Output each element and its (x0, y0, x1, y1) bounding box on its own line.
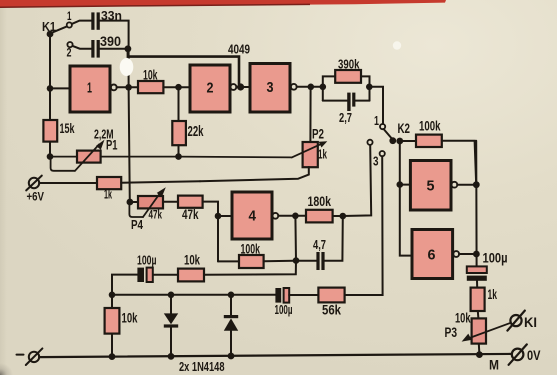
wire U3 out (297, 86, 308, 88)
wire contact1 to C 33n (72, 21, 92, 24)
resistor 47k (178, 196, 203, 208)
switch K1 contact 1 (67, 22, 72, 27)
svg-text:P1: P1 (106, 138, 118, 153)
whiteout dot (393, 41, 401, 49)
wire K2 pole down to U5 input (399, 141, 401, 185)
inverter U6 (412, 230, 453, 279)
wire node A to 180k (295, 215, 306, 217)
wire contact 3 down to 56k (345, 156, 383, 295)
resistor 1k (output) (471, 288, 485, 311)
inverter U6 output bubble (453, 251, 459, 257)
wire 100k to right column (442, 141, 476, 185)
node rail D2 (228, 353, 235, 360)
svg-text:33n: 33n (101, 8, 122, 23)
capacitor 390 (91, 40, 99, 58)
svg-text:P3: P3 (445, 325, 458, 340)
resistor 1k (+6V) (97, 177, 121, 189)
wire 15k to P1 node (49, 142, 51, 157)
wire RC bottom branch right (355, 100, 369, 102)
node at caps junction (125, 45, 132, 52)
wire to gate1 (50, 87, 70, 89)
wire C33n to corner down to node (100, 21, 129, 47)
terminal +6V (26, 176, 42, 191)
svg-text:+6V: +6V (27, 190, 45, 204)
resistor 100k feedback (239, 255, 264, 268)
node bus D2 (228, 292, 235, 299)
wire +6V to 1k (39, 182, 97, 184)
wire R10k to U2 (163, 86, 190, 88)
node U5 input (397, 181, 404, 188)
inverter U3 output bubble (291, 84, 297, 90)
wire bus left column up to cap row (112, 275, 137, 295)
wire C4,7 to node B column (325, 216, 343, 261)
wire 10k row to node A2 (204, 261, 296, 275)
svg-text:2: 2 (67, 46, 72, 60)
svg-text:1k: 1k (318, 147, 327, 162)
resistor 100k (K2) (416, 135, 442, 147)
P1 wiper arrow (75, 140, 105, 171)
red magazine bar top (0, 0, 446, 7)
wire K1 pole down to gate1 input (49, 35, 51, 88)
diode D2 (224, 295, 238, 356)
svg-text:15k: 15k (60, 121, 75, 136)
wire node to R10k (129, 86, 138, 88)
wire U5 out to column (457, 184, 473, 186)
potentiometer P2 1k (303, 142, 318, 167)
wire 10k column (111, 295, 113, 357)
wire to 100k fb (218, 260, 239, 262)
P2 wiper arrow (292, 141, 328, 157)
terminal 0V (509, 344, 527, 364)
svg-text:1k: 1k (488, 287, 498, 302)
node B (340, 213, 347, 220)
wire 1k to P3 (477, 311, 480, 318)
svg-text:47k: 47k (182, 206, 199, 222)
svg-text:3: 3 (267, 80, 274, 96)
inverter U4 output bubble (273, 213, 279, 219)
capacitor 2,7 (347, 93, 355, 111)
svg-text:390: 390 (100, 33, 121, 49)
node U3 out (308, 84, 315, 91)
wire 100k fb to node A2 (264, 260, 294, 263)
wire cap to 56k (289, 294, 318, 296)
wire node down to U6 input (400, 185, 412, 256)
wire contact2 to C 390 (73, 46, 92, 49)
node U1 output (125, 84, 132, 91)
svg-text:100µ: 100µ (483, 251, 508, 266)
node bus left (109, 292, 116, 299)
inverter U4 (232, 192, 272, 239)
resistor 22k (172, 121, 186, 145)
svg-text:1: 1 (87, 81, 92, 97)
svg-text:4,7: 4,7 (313, 237, 326, 252)
wire node A2 to C4,7 (296, 260, 316, 262)
svg-text:P4: P4 (131, 217, 144, 232)
svg-text:100µ: 100µ (137, 253, 157, 268)
node rail D1 (168, 353, 175, 360)
wire U2 out to node (236, 86, 238, 88)
wire right column to C100u (475, 141, 477, 267)
svg-text:47k: 47k (149, 210, 163, 222)
switch K1 pole (47, 27, 67, 38)
node P1 left (47, 153, 54, 160)
wire U6 out to column (459, 253, 473, 255)
wire R22k to bottom node (178, 145, 180, 156)
node P4 left (126, 199, 133, 206)
potentiometer P1 2,2M (77, 151, 101, 163)
wire elbow node to gate3 input (128, 50, 239, 84)
P4 wiper arrow (143, 187, 166, 217)
capacitor 100u (left) (137, 268, 152, 282)
svg-text:M: M (489, 358, 499, 373)
node P3 ground (476, 351, 483, 358)
svg-text:100µ: 100µ (275, 302, 293, 317)
svg-text:1: 1 (67, 9, 72, 23)
svg-text:K1: K1 (42, 19, 56, 34)
capacitor 100u (bus) (275, 288, 289, 303)
inverter U3 (250, 64, 290, 113)
svg-text:3: 3 (373, 155, 379, 169)
terminal minus left (26, 348, 43, 365)
switch K2 contact 1 (380, 124, 385, 129)
minus sign (17, 354, 24, 356)
resistor 10k (feedback row) (178, 269, 204, 282)
resistor 180k (306, 210, 333, 223)
wire row P1/22k/P2 wiper (50, 156, 292, 159)
terminal KI (507, 311, 524, 331)
inverter U5 output bubble (452, 182, 458, 188)
svg-text:2,7: 2,7 (339, 110, 352, 125)
svg-text:10k: 10k (143, 67, 158, 83)
svg-text:6: 6 (428, 248, 436, 264)
inverter U2 (190, 65, 230, 112)
whiteout blob (120, 58, 134, 76)
wire P3 to ground rail (478, 344, 481, 355)
wire P2 bottom to +6V row (200, 167, 309, 181)
potentiometer P3 10k (472, 318, 486, 343)
switch K2 contact 3 (380, 151, 385, 156)
node U4 input (215, 213, 222, 220)
svg-text:180k: 180k (308, 194, 332, 209)
wire U1 out to node (117, 86, 126, 88)
svg-text:100k: 100k (419, 118, 441, 134)
wire node B up to K2 spare contact (343, 145, 371, 216)
wire RC left risers (323, 76, 335, 100)
svg-text:22k: 22k (188, 124, 205, 140)
node rail 10k (109, 353, 116, 360)
wire cap to 1k (476, 281, 478, 288)
node 22k bottom (175, 153, 182, 160)
inverter U2 output bubble (231, 84, 237, 90)
wire node A to node A2 (294, 216, 297, 261)
node U2 out / U3 in (237, 83, 244, 90)
capacitor 4,7 (316, 252, 324, 270)
P3 wiper arrow to KI (462, 323, 511, 342)
node RC left (320, 84, 327, 91)
svg-text:56k: 56k (322, 303, 341, 318)
node A2 (293, 257, 300, 264)
wire P4 to 47k (163, 201, 178, 203)
svg-text:K2: K2 (398, 121, 411, 136)
svg-text:0V: 0V (527, 348, 541, 363)
P4 rheostat hook (129, 203, 143, 217)
wire node to U3 (241, 86, 250, 88)
resistor 10k (bottom left) (105, 308, 120, 334)
inverter U1 output bubble (111, 85, 117, 91)
svg-text:390k: 390k (338, 57, 360, 72)
diode D1 (164, 295, 178, 357)
capacitor 33n (91, 12, 99, 29)
wire C390 to node (100, 48, 126, 50)
wire U3 node down to P2 (309, 87, 311, 142)
svg-text:5: 5 (427, 179, 435, 195)
svg-text:2x 1N4148: 2x 1N4148 (179, 360, 225, 374)
wire node to P4 (130, 201, 138, 203)
inverter U1 (70, 66, 110, 112)
vertical wire node caps to P4 node (129, 50, 130, 202)
svg-text:10k: 10k (184, 253, 200, 268)
switch K2 arm and pole (384, 129, 404, 144)
capacitor 100u output (467, 266, 487, 280)
node R10k/R22k (175, 84, 182, 91)
node RC right (366, 84, 373, 91)
wire 1k to row (121, 181, 200, 183)
wire node to U5 (400, 184, 410, 186)
resistor 56k (318, 288, 344, 303)
resistor 15k (43, 120, 57, 142)
node U6 out (473, 251, 480, 258)
wire 180k to node B (333, 215, 340, 217)
node U5 out (473, 181, 480, 188)
svg-text:100k: 100k (241, 242, 261, 257)
resistor 390k (335, 70, 361, 83)
switch K1 contact 2 (67, 42, 72, 47)
inverter U5 (410, 161, 451, 211)
wire 47k to U4 input (203, 202, 218, 214)
svg-text:4: 4 (249, 209, 257, 225)
resistor 10k (138, 81, 163, 93)
K2 spare contact (367, 140, 372, 145)
potentiometer P4 47k (138, 196, 163, 208)
wire K2 pole to 100k (400, 140, 416, 142)
wire 390k to right riser (361, 76, 370, 100)
node A U4 output (292, 213, 299, 220)
wire to parallel RC left node (311, 86, 320, 88)
svg-text:10k: 10k (455, 311, 471, 326)
ground rail (39, 354, 512, 357)
bus wire diodes (112, 294, 276, 296)
wire U4 input node down to 100k fb (217, 216, 219, 261)
wire RC right node to K2 contact 1 (369, 87, 383, 124)
svg-text:KI: KI (524, 315, 537, 330)
wire cap to 10k (153, 274, 178, 276)
wire node down to R22k (178, 87, 180, 121)
svg-text:P2: P2 (312, 127, 324, 142)
svg-text:2: 2 (207, 81, 214, 97)
P1 rheostat hook (51, 158, 75, 171)
wire U4 out to node A (278, 215, 293, 217)
wire node to U4 (218, 215, 232, 217)
node gate1 input (47, 85, 54, 92)
svg-text:4049: 4049 (228, 42, 250, 57)
node bus D1 (168, 292, 175, 299)
wire U1 input node down to 15k (49, 88, 51, 120)
svg-text:1: 1 (374, 114, 379, 128)
svg-text:10k: 10k (122, 311, 138, 326)
wire RC bottom branch left (323, 100, 347, 102)
svg-text:1k: 1k (104, 188, 112, 202)
